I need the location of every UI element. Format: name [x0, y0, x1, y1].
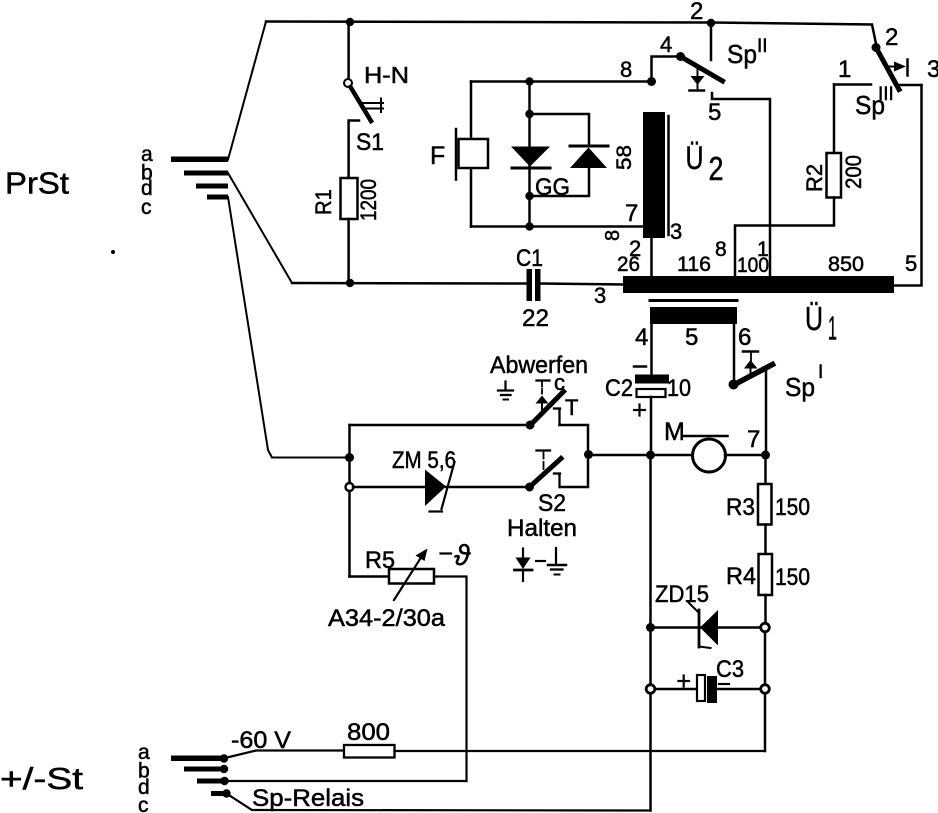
minus mark (Halten) [536, 560, 545, 562]
diode GG left (pointing down) [511, 147, 550, 169]
junction on top bus node 2 [707, 19, 715, 27]
terminal C3 left (open) [646, 685, 655, 694]
wire R4 down [764, 595, 767, 623]
junction middle bus at R1 [346, 279, 354, 287]
svg-text:1: 1 [757, 238, 769, 261]
svg-text:S2: S2 [538, 490, 566, 517]
svg-text:58: 58 [613, 145, 636, 170]
wire R5 right to bottom [434, 577, 467, 782]
switch S2 fixed contact [554, 474, 560, 488]
wire ZD15 row [651, 626, 761, 629]
svg-text:R5: R5 [365, 547, 395, 574]
wire node 8 to SpII pivot (pin 4) [652, 57, 679, 82]
earpiece F [456, 129, 488, 180]
junction on top bus at S1 [346, 18, 354, 26]
wire -60V left [225, 751, 344, 759]
label Ue2 [686, 140, 724, 187]
stray dot [111, 250, 115, 254]
switch S2 pivot [525, 483, 534, 492]
wire GG loop bottom [471, 225, 644, 228]
wire PrSt-b to middle bus [228, 173, 292, 283]
minus theta mark [441, 540, 472, 572]
capacitor C2 [635, 375, 669, 398]
resistor R4 [759, 554, 773, 595]
switch T blade [530, 392, 564, 426]
wire -60V right [395, 750, 766, 752]
capacitor C1 [527, 269, 541, 301]
wire secondary pin 4 down [650, 324, 653, 374]
svg-text:5: 5 [905, 251, 917, 276]
svg-text:Sp: Sp [727, 39, 757, 69]
wire GG right branch [530, 114, 590, 145]
svg-text:III: III [878, 84, 894, 105]
wire C3 row [655, 688, 760, 691]
resistor 800 [344, 745, 395, 758]
svg-text:ϑ: ϑ [454, 540, 471, 572]
junction C2 node [646, 451, 655, 460]
svg-text:200: 200 [841, 155, 866, 189]
diode ZD15 [689, 603, 719, 649]
junction GG branch bottom [525, 192, 533, 200]
wire ZD to C3 row left [649, 632, 652, 684]
node PrSt connector bars a,b,d,c [171, 157, 228, 200]
svg-text:1200: 1200 [356, 179, 381, 221]
junction relay input [345, 453, 354, 462]
svg-text:C2: C2 [605, 375, 633, 402]
wire C2 down to motor row [650, 397, 653, 456]
svg-text:6: 6 [738, 324, 751, 351]
wire top bus (node 2) [266, 22, 877, 47]
resistor R5 [389, 569, 434, 584]
diode ZM wire left [353, 486, 427, 489]
junction T/S2 out [584, 450, 593, 459]
wire R5 left lead [350, 575, 390, 578]
svg-text:1: 1 [828, 310, 837, 347]
wire GG right branch lower [530, 168, 590, 196]
switch S2 blade [530, 459, 562, 488]
diode ZM wire right [446, 486, 527, 489]
svg-text:Sp-Relais: Sp-Relais [252, 785, 364, 812]
wire S1 lower hook [349, 121, 359, 179]
svg-text:8: 8 [715, 238, 727, 261]
svg-text:1: 1 [838, 56, 851, 83]
node +/-St connector bars [171, 756, 229, 797]
wire motor row right [725, 454, 766, 457]
transformer U1 primary bar [623, 276, 894, 293]
junction node 8 right [647, 77, 656, 86]
svg-text:800: 800 [347, 719, 390, 746]
wire GG loop left vertical [470, 82, 473, 140]
capacitor C2 minus mark [634, 365, 646, 368]
diode GG right (pointing up) [570, 146, 608, 168]
wire C3 right down to -60V bus [764, 694, 767, 751]
switch T fixed contact [554, 409, 560, 426]
svg-text:4: 4 [660, 32, 672, 57]
svg-text:ZM 5,6: ZM 5,6 [392, 447, 456, 474]
ground (Halten) [548, 548, 566, 575]
svg-text:2: 2 [709, 150, 724, 187]
wire GG center vertical [528, 82, 531, 227]
diode mark (Halten) [515, 549, 533, 582]
wire middle bus left part [292, 282, 526, 285]
svg-text:116: 116 [677, 253, 711, 276]
wire SpII out to Ue1 pin 1 [712, 93, 770, 276]
svg-text:C3: C3 [716, 656, 744, 683]
svg-text:Ü: Ü [686, 140, 704, 176]
terminal C3 right (open) [761, 685, 770, 694]
switch SpIII blade [876, 48, 899, 90]
transformer U2 core line [667, 116, 670, 235]
label Ue1 [805, 301, 837, 347]
svg-text:7: 7 [625, 200, 638, 227]
svg-text:22: 22 [522, 305, 549, 332]
wire node7 to R3 [764, 455, 767, 484]
switch T pivot [526, 421, 535, 430]
svg-text:3: 3 [670, 219, 682, 244]
resistor R1 [341, 178, 358, 219]
label SpII [727, 36, 768, 69]
svg-text:150: 150 [775, 494, 810, 521]
wire center vertical motor node down [649, 455, 652, 623]
svg-text:C1: C1 [516, 245, 543, 272]
junction ZD15 left [646, 623, 655, 632]
label SpIII [855, 84, 894, 120]
wire R1 to middle bus [347, 219, 350, 283]
switch SpI actuator arrow [743, 352, 758, 374]
diode ZM [425, 462, 455, 512]
wire motor row left [589, 454, 694, 457]
junction GG bottom [525, 222, 533, 230]
svg-text:A34-2/30a: A34-2/30a [328, 605, 446, 632]
transformer U2 winding bar [643, 112, 665, 238]
relay box top wire [350, 424, 530, 427]
switch S1 upper lead [347, 22, 350, 79]
svg-text:+/-St: +/-St [0, 761, 83, 796]
junction GG branch top [525, 110, 533, 118]
ground (Abwerfen) [498, 382, 513, 400]
svg-text:c: c [141, 196, 152, 219]
svg-text:M: M [664, 418, 685, 446]
relay box left vertical [348, 425, 351, 577]
wire SpIII out right [898, 84, 922, 87]
svg-text:5: 5 [685, 324, 698, 351]
svg-text:2: 2 [885, 24, 898, 51]
svg-text:R4: R4 [726, 563, 756, 590]
switch SpII pivot [676, 52, 685, 61]
switch SpII actuator arrow [690, 66, 705, 91]
labels a b d c (PrSt pins) [141, 143, 153, 219]
switch S1 blade [351, 87, 372, 121]
svg-text:H-N: H-N [364, 62, 409, 88]
switch SpIII pivot [872, 43, 881, 52]
wire GG loop top (node 8) [471, 80, 651, 83]
svg-text:GG: GG [535, 174, 570, 201]
svg-text:PrSt: PrSt [5, 166, 69, 201]
switch SpIII fixed contact arrow [887, 60, 908, 76]
switch S1 fixed contact marks [363, 99, 383, 113]
svg-text:Abwerfen: Abwerfen [490, 352, 588, 379]
svg-text:3: 3 [594, 283, 606, 308]
wire T out [560, 425, 589, 455]
label SpI [785, 362, 823, 402]
wire PrSt-c to relay row [228, 197, 348, 458]
svg-text:ZD15: ZD15 [655, 581, 709, 608]
motor top dash [684, 435, 728, 438]
resistor R3 [758, 484, 772, 525]
wire SpII fixed contact stub from node 2 [710, 23, 713, 60]
transformer U1 secondary bar [650, 307, 737, 324]
svg-text:850: 850 [828, 253, 864, 276]
R5 adjust arrow [394, 549, 428, 601]
svg-text:Ü: Ü [805, 301, 823, 338]
wire center vertical to Sp-Relais bus [649, 694, 652, 811]
svg-text:Sp: Sp [785, 372, 815, 402]
motor M [693, 439, 726, 472]
capacitor C3 [697, 675, 717, 703]
wire SpI out down to node 7 [765, 371, 768, 456]
wire PrSt-a to top bus [228, 22, 266, 160]
svg-text:F: F [430, 142, 445, 170]
svg-text:3: 3 [927, 56, 938, 83]
wire R3 to R4 [764, 525, 767, 555]
switch SpI pivot [729, 380, 739, 390]
switch S2 symbol [537, 451, 551, 470]
C3 plus mark [679, 676, 690, 687]
wire ZD to C3 right [764, 632, 767, 684]
contact c symbol [536, 381, 550, 412]
junction node 7 [761, 451, 770, 460]
svg-text:Halten: Halten [507, 515, 577, 542]
svg-text:c: c [138, 794, 149, 813]
switch S1 pivot circle [344, 79, 352, 87]
junction GG top left [525, 77, 533, 85]
C3 minus mark [719, 683, 729, 685]
svg-text:II: II [757, 36, 768, 57]
svg-text:8: 8 [602, 230, 624, 241]
svg-text:S1: S1 [356, 129, 384, 156]
labels a b d c (+/-St pins) [138, 741, 150, 813]
svg-text:R1: R1 [311, 189, 336, 215]
capacitor C2 plus mark [634, 405, 645, 416]
svg-text:R2: R2 [802, 164, 827, 192]
svg-text:150: 150 [775, 564, 810, 591]
svg-text:8: 8 [620, 57, 632, 82]
transformer U1 core line [650, 299, 737, 302]
wire right edge down to Ue1 pin 5 [894, 85, 922, 286]
terminal ZM row (open) [346, 483, 354, 491]
wire Sp-Relais [227, 794, 651, 811]
svg-text:R3: R3 [726, 494, 755, 521]
wire S2 out [560, 455, 588, 487]
switch SpII blade [681, 57, 723, 82]
wire secondary pin 6 down [733, 324, 736, 380]
svg-text:26: 26 [617, 253, 640, 276]
svg-text:10: 10 [667, 375, 691, 402]
wire b-pin to R5 vertical [225, 780, 467, 782]
resistor R2 [827, 153, 842, 198]
wire R2 lower lead to Ue1 pin 8 [735, 198, 834, 277]
wire middle bus right part to Ue1 pin 3 [541, 284, 625, 285]
svg-text:7: 7 [747, 426, 760, 453]
wire U2 bottom lead to Ue1 [650, 238, 653, 276]
switch SpI blade [734, 365, 773, 386]
svg-text:I: I [818, 362, 823, 383]
junction dots on +/-St pins [220, 754, 231, 797]
svg-text:5: 5 [708, 99, 721, 126]
svg-text:T: T [565, 395, 578, 420]
svg-text:4: 4 [635, 324, 648, 351]
wire R2 upper lead [833, 85, 836, 154]
svg-text:2: 2 [690, 0, 703, 25]
wire R2 top row [834, 83, 871, 86]
terminal ZD15 right (open) [761, 623, 770, 632]
